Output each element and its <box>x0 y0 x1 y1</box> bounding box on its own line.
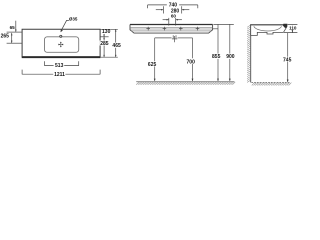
floor line front view <box>136 81 234 83</box>
dim 65 ext horizontal <box>7 31 22 33</box>
slab top thick line <box>130 24 213 26</box>
svg-text:625: 625 <box>148 62 157 68</box>
dim 700 vertical <box>192 38 194 81</box>
dim 855 vertical <box>217 24 219 81</box>
faucet hole <box>60 35 62 37</box>
slab white band <box>130 25 213 34</box>
label 900 <box>226 54 236 59</box>
wall hatching <box>247 25 251 82</box>
svg-text:65: 65 <box>10 25 16 30</box>
bowl section curve <box>254 26 282 31</box>
top right ext line <box>213 23 233 25</box>
svg-text:Ø35: Ø35 <box>69 16 78 21</box>
fixing hole crosses on slab <box>146 27 199 31</box>
svg-text:285: 285 <box>100 41 109 47</box>
dim 280 arrows <box>156 9 163 11</box>
dim 265 line <box>11 33 13 43</box>
svg-text:265: 265 <box>1 33 10 39</box>
dim 60 arrows <box>163 19 169 21</box>
ext line basin top <box>100 36 109 38</box>
ext line from cross to 700 <box>178 37 193 39</box>
basin side profile <box>251 25 287 36</box>
slab inner line <box>130 27 212 29</box>
ext line bottom <box>100 56 118 58</box>
label 280 <box>170 8 180 13</box>
dim 625 vertical <box>154 38 156 81</box>
svg-text:745: 745 <box>283 58 292 64</box>
dim 900 vertical <box>229 24 231 81</box>
dim 110 line <box>291 25 293 33</box>
svg-text:900: 900 <box>226 54 235 60</box>
svg-text:110: 110 <box>289 26 297 31</box>
ext line from cross to 625 <box>155 37 172 39</box>
wall line <box>250 24 252 82</box>
dim 110 ext lines <box>284 25 297 33</box>
dim 1211 line <box>22 73 100 75</box>
label 855 <box>212 54 222 59</box>
drain position cross <box>58 42 63 47</box>
slab lower soft line <box>132 30 212 32</box>
slab gray band <box>130 28 212 31</box>
floor line side view <box>251 81 289 83</box>
svg-text:465: 465 <box>112 43 121 49</box>
dim 280 ext lines <box>163 6 181 13</box>
svg-text:855: 855 <box>212 54 221 60</box>
svg-text:1211: 1211 <box>54 72 65 78</box>
dim 1211 ticks <box>22 70 100 75</box>
label 465 <box>111 43 121 48</box>
dim 60 ext lines <box>169 18 176 26</box>
top view thick front edge <box>22 56 101 58</box>
dim 513 ticks <box>45 61 79 66</box>
dim 265 ext horizontal <box>7 42 22 44</box>
dim 513 line <box>45 65 79 67</box>
label 285 <box>100 41 110 46</box>
label 265 <box>0 33 10 38</box>
deck top line <box>251 24 285 26</box>
svg-text:130: 130 <box>102 29 111 35</box>
floor hatching side view <box>252 83 292 86</box>
label 130 <box>101 30 111 34</box>
svg-text:700: 700 <box>187 59 196 65</box>
top view outer rect <box>22 29 100 56</box>
dim 65 arrow <box>15 30 17 33</box>
basin inner rounded rect <box>45 37 79 53</box>
slab outline <box>130 25 213 34</box>
dim 740 hooks <box>148 5 198 8</box>
svg-text:60: 60 <box>171 13 177 18</box>
floor hatching front view <box>136 82 235 85</box>
drain cross under front view <box>172 35 177 42</box>
dim 65 ext vertical <box>15 21 17 32</box>
svg-text:740: 740 <box>169 3 178 9</box>
dim 130-285 line <box>103 29 105 57</box>
dim 740 line <box>148 4 198 6</box>
dim 465 line <box>115 29 117 57</box>
leader line to faucet hole <box>61 20 69 30</box>
svg-text:513: 513 <box>55 63 64 69</box>
front rim thick nose <box>283 24 287 28</box>
stub from slab right corner <box>213 28 218 30</box>
dim 745 vertical <box>287 33 289 82</box>
ext line top <box>100 28 118 30</box>
